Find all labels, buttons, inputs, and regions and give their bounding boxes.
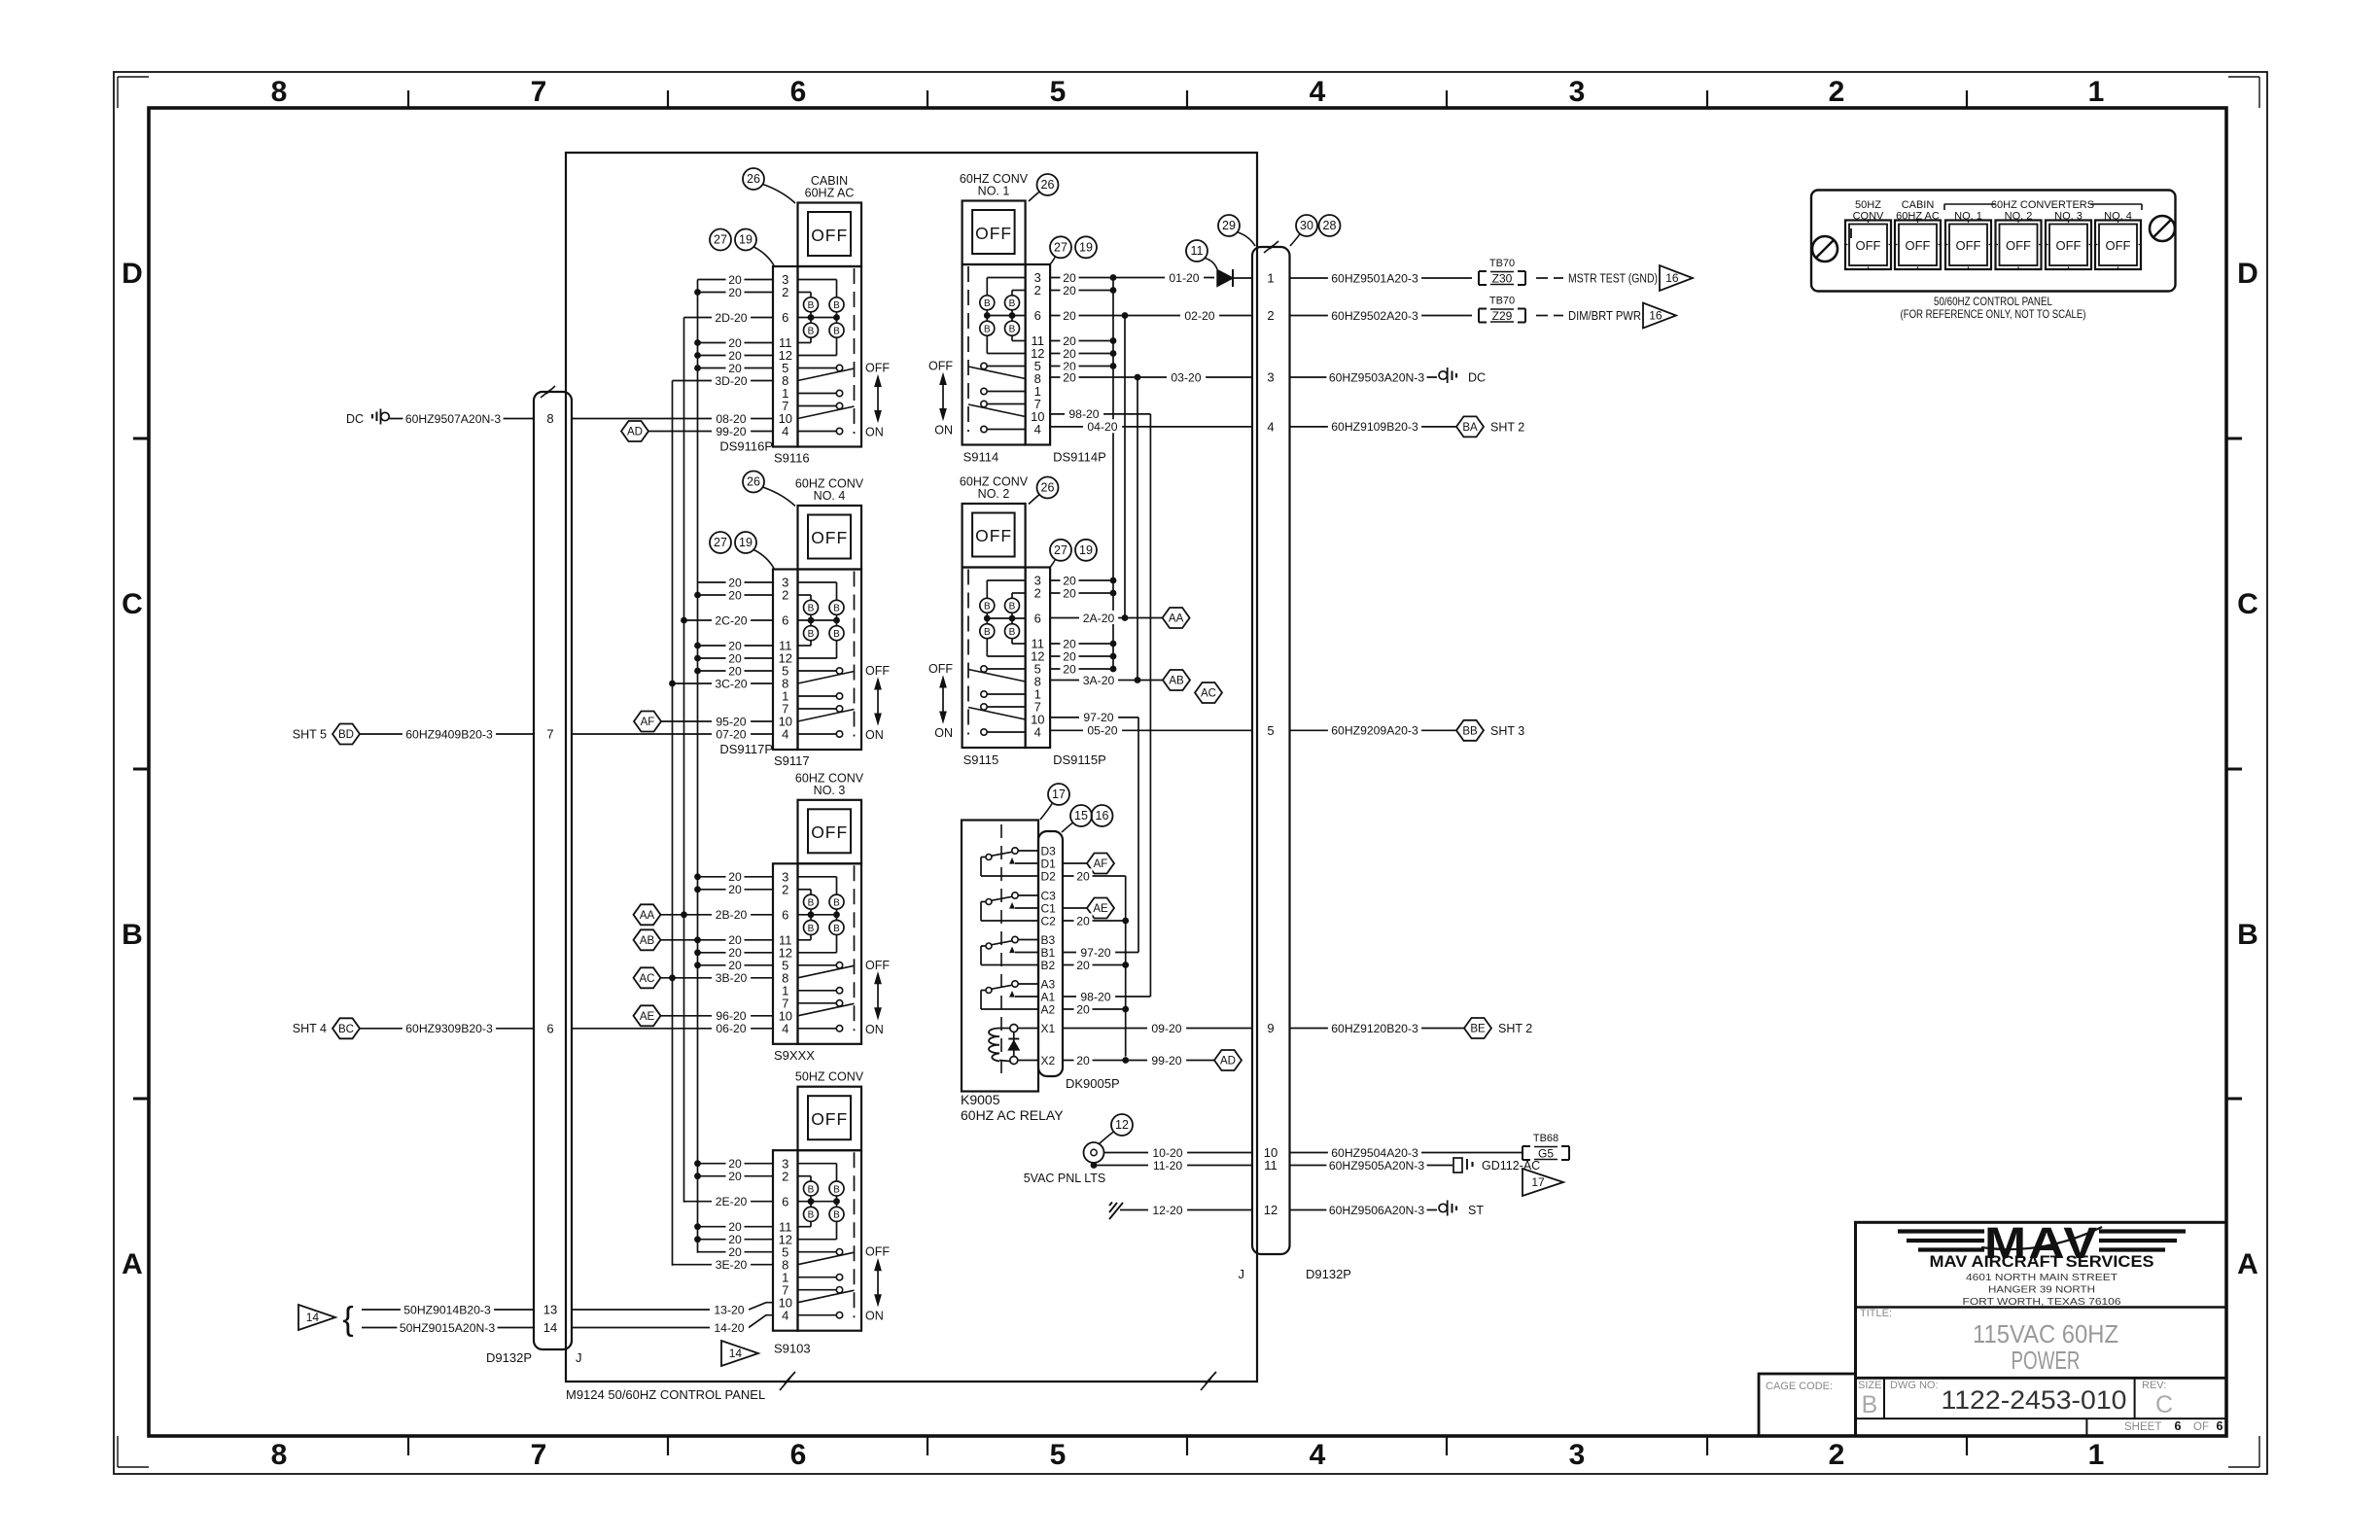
svg-text:19: 19: [739, 536, 752, 549]
switch S9XXX actuator dashed line: [854, 865, 856, 1031]
svg-text:20: 20: [728, 336, 742, 350]
svg-text:1: 1: [2088, 76, 2105, 108]
svg-text:B: B: [833, 300, 840, 311]
svg-text:B: B: [2237, 919, 2258, 951]
svg-text:26: 26: [747, 475, 760, 489]
svg-text:OFF: OFF: [811, 226, 848, 245]
wire S9114 pin5 20: [1050, 366, 1113, 367]
svg-text:4: 4: [1310, 76, 1326, 108]
switch S9XXX body: [798, 863, 862, 1044]
svg-text:AC: AC: [1201, 688, 1216, 700]
panel box bottom break symbols: [780, 1372, 795, 1390]
svg-text:11: 11: [1191, 244, 1204, 258]
svg-text:96-20: 96-20: [716, 1009, 746, 1023]
wire S9117 pin2 20: [698, 594, 774, 596]
svg-text:B: B: [808, 1210, 815, 1221]
svg-text:20: 20: [1063, 271, 1076, 285]
relay coil diode: [1010, 1025, 1018, 1032]
svg-text:OFF: OFF: [975, 526, 1012, 545]
wire 60HZ9503A20N-3 DC: [1290, 376, 1438, 378]
svg-text:FORT WORTH, TEXAS 76106: FORT WORTH, TEXAS 76106: [1963, 1296, 2121, 1308]
svg-text:60HZ9209A20-3: 60HZ9209A20-3: [1331, 724, 1418, 738]
svg-text:OFF: OFF: [928, 360, 953, 373]
svg-text:1: 1: [1267, 271, 1274, 286]
svg-text:B3: B3: [1041, 933, 1056, 947]
wire S9114 pin11 20: [1050, 340, 1113, 342]
wire relay D1 to AF: [1063, 862, 1088, 864]
wire S9117 pin12 20: [698, 657, 774, 659]
switch S9117 actuator dashed line: [854, 572, 856, 737]
svg-text:14: 14: [306, 1311, 320, 1324]
svg-text:SHT 2: SHT 2: [1490, 420, 1524, 434]
switch S9114 OFF indicator box: [962, 201, 1026, 265]
balloon 27: [1050, 540, 1071, 561]
svg-text:3B-20: 3B-20: [716, 971, 748, 985]
balloon 19: [1075, 540, 1097, 561]
svg-text:ON: ON: [865, 728, 884, 742]
svg-text:DC: DC: [1468, 371, 1486, 385]
svg-text:C1: C1: [1041, 901, 1057, 915]
svg-text:28: 28: [1323, 219, 1337, 232]
svg-text:ON: ON: [934, 424, 953, 437]
relay contact D: [1012, 848, 1018, 854]
svg-text:95-20: 95-20: [716, 715, 746, 728]
svg-text:D2: D2: [1041, 869, 1057, 883]
svg-text:02-20: 02-20: [1184, 309, 1214, 323]
svg-text:B1: B1: [1041, 946, 1056, 960]
svg-text:19: 19: [1079, 241, 1093, 255]
svg-text:20: 20: [1076, 1002, 1090, 1016]
flag 16: [1660, 265, 1693, 291]
switch S9115 lamp circles: [1005, 598, 1020, 612]
svg-text:REV:: REV:: [2142, 1380, 2166, 1391]
svg-text:OFF: OFF: [865, 362, 890, 375]
switch S9116 OFF/ON arrow: [877, 383, 879, 415]
svg-text:NO. 3: NO. 3: [814, 784, 846, 797]
svg-text:20: 20: [1063, 370, 1076, 384]
wire bus 02/2A-20 (x=1157): [1124, 316, 1126, 618]
svg-text:3: 3: [1267, 370, 1274, 385]
svg-text:20: 20: [1076, 1054, 1090, 1067]
svg-text:OFF: OFF: [1906, 238, 1931, 253]
wire S9115 pin3 20: [1050, 579, 1113, 581]
svg-text:20: 20: [728, 1220, 742, 1234]
svg-text:4: 4: [782, 727, 788, 742]
wire 07-20 to S9117 pin4: [572, 733, 773, 735]
svg-text:DS9114P: DS9114P: [1053, 450, 1106, 465]
svg-text:AA: AA: [640, 910, 655, 922]
svg-text:5: 5: [1050, 76, 1067, 108]
svg-text:B: B: [984, 298, 991, 309]
svg-text:B: B: [1009, 602, 1016, 612]
svg-text:115VAC 60HZ: 115VAC 60HZ: [1973, 1319, 2118, 1348]
switch S9103 OFF indicator box: [798, 1087, 862, 1151]
svg-text:B: B: [984, 325, 991, 335]
svg-text:SIZE: SIZE: [1858, 1380, 1881, 1391]
svg-text:20: 20: [1063, 347, 1076, 361]
svg-text:60HZ9507A20N-3: 60HZ9507A20N-3: [405, 412, 501, 426]
wire S9115 pin5 20: [1050, 668, 1113, 670]
wire 98-20 S9114 pin10: [1050, 413, 1150, 415]
wire relay B1 97-20: [1063, 952, 1138, 954]
svg-text:12: 12: [1115, 1118, 1129, 1132]
flag 16: [1643, 303, 1676, 329]
svg-text:27: 27: [1054, 543, 1067, 557]
svg-text:5: 5: [1050, 1439, 1067, 1471]
svg-text:20: 20: [728, 1233, 742, 1246]
wire 60HZ9505A20N-3 GD112-AC: [1290, 1165, 1453, 1167]
svg-text:MSTR TEST (GND): MSTR TEST (GND): [1568, 272, 1658, 286]
switch S9117 contacts: [798, 670, 837, 672]
svg-text:AF: AF: [641, 717, 655, 728]
wire 04-20 S9114 pin4 to D9132P-4: [1050, 426, 1252, 428]
svg-text:A1: A1: [1041, 990, 1056, 1003]
svg-text:B2: B2: [1041, 959, 1056, 972]
svg-text:08-20: 08-20: [716, 412, 746, 426]
svg-text:26: 26: [1041, 481, 1055, 495]
svg-text:S9114: S9114: [963, 450, 999, 465]
switch S9103 actuator dashed line: [854, 1152, 856, 1317]
svg-text:AA: AA: [1169, 613, 1184, 625]
wire S9103 pin11 20: [698, 1226, 774, 1228]
svg-text:HANGER 39 NORTH: HANGER 39 NORTH: [1988, 1284, 2095, 1296]
svg-text:ON: ON: [934, 726, 953, 740]
svg-text:OFF: OFF: [2006, 238, 2031, 253]
svg-text:20: 20: [1076, 914, 1090, 927]
wire S9114 pin6 20 / 02-20 to D9132P-2: [1050, 315, 1252, 317]
switch S9116 lamp circles: [804, 297, 819, 312]
svg-text:60HZ9109B20-3: 60HZ9109B20-3: [1331, 420, 1418, 434]
wire 60HZ9109B20-3 BA SHT 2: [1290, 426, 1457, 428]
switch S9XXX OFF indicator box: [798, 800, 862, 864]
svg-text:OFF: OFF: [811, 1109, 848, 1129]
wire S9103 pin12 20: [698, 1239, 774, 1241]
svg-text:{: {: [342, 1301, 353, 1338]
wire 60HZ9506A20N-3 ST: [1290, 1209, 1438, 1211]
svg-text:S9116: S9116: [774, 451, 810, 466]
svg-text:20: 20: [1063, 649, 1076, 663]
svg-text:B: B: [833, 629, 840, 640]
switch S9116 actuator dashed line: [854, 268, 856, 434]
svg-text:20: 20: [1063, 586, 1076, 600]
panel box right edge through connector: [1256, 247, 1258, 1254]
node AF: [634, 712, 661, 732]
svg-text:3: 3: [1569, 1439, 1586, 1471]
svg-text:12-20: 12-20: [1152, 1204, 1182, 1217]
svg-text:16: 16: [1649, 309, 1662, 323]
svg-text:17: 17: [1531, 1175, 1545, 1189]
svg-text:6: 6: [1034, 612, 1041, 626]
switch S9114 actuator dashed line: [967, 266, 969, 432]
svg-text:10-20: 10-20: [1152, 1146, 1182, 1160]
svg-text:97-20: 97-20: [1080, 946, 1110, 960]
wire 60HZ9120B20-3 BE SHT 2: [1290, 1028, 1465, 1030]
svg-text:OFF: OFF: [865, 959, 890, 972]
svg-text:2: 2: [1829, 1439, 1845, 1471]
svg-text:2E-20: 2E-20: [716, 1195, 748, 1208]
switch S9116 body: [798, 266, 862, 447]
wire S9117 pin3 20: [698, 581, 774, 583]
svg-text:SHEET: SHEET: [2124, 1421, 2161, 1433]
flag 14: [298, 1305, 335, 1330]
svg-text:TB70: TB70: [1489, 296, 1515, 307]
svg-text:60HZ AC: 60HZ AC: [805, 187, 855, 200]
balloon 27: [1050, 236, 1071, 258]
svg-text:TB70: TB70: [1489, 258, 1515, 269]
svg-text:AD: AD: [1220, 1056, 1236, 1067]
svg-text:3D-20: 3D-20: [715, 374, 747, 388]
svg-text:DS9116P: DS9116P: [719, 439, 773, 454]
switch S9114 pin column: [1026, 264, 1051, 445]
balloon 15: [1070, 805, 1092, 826]
svg-text:60HZ9502A20-3: 60HZ9502A20-3: [1331, 309, 1418, 323]
svg-text:(FOR REFERENCE ONLY, NOT TO SC: (FOR REFERENCE ONLY, NOT TO SCALE): [1901, 307, 2086, 321]
svg-text:B: B: [833, 327, 840, 337]
svg-text:4: 4: [1034, 422, 1041, 437]
svg-text:Z29: Z29: [1492, 309, 1513, 323]
node AC: [634, 967, 661, 988]
svg-text:B: B: [833, 897, 840, 908]
svg-text:SHT 3: SHT 3: [1490, 724, 1524, 738]
switch S9117 lamp circles: [804, 600, 819, 614]
relay contact A: [1012, 981, 1018, 987]
svg-text:26: 26: [1041, 178, 1055, 192]
balloon 19: [735, 532, 756, 553]
svg-text:15: 15: [1074, 809, 1088, 822]
svg-text:B: B: [808, 300, 815, 311]
svg-text:6: 6: [1034, 308, 1041, 323]
svg-text:11: 11: [1264, 1158, 1277, 1172]
svg-text:6: 6: [2175, 1419, 2182, 1433]
wire 3E-20 S9103 pin8: [673, 1264, 774, 1266]
svg-text:20: 20: [728, 349, 742, 363]
svg-text:7: 7: [531, 76, 547, 108]
svg-text:B: B: [808, 629, 815, 640]
node AE: [1087, 898, 1114, 919]
svg-text:2: 2: [1034, 586, 1041, 601]
svg-text:TB68: TB68: [1533, 1133, 1558, 1144]
svg-text:50/60HZ CONTROL PANEL: 50/60HZ CONTROL PANEL: [1934, 295, 2052, 308]
switch S9103 OFF/ON arrow: [877, 1267, 879, 1299]
wire 11-20 to D9132P-11: [1093, 1163, 1095, 1166]
svg-text:BC: BC: [338, 1024, 354, 1035]
wire S9XXX pin2 20: [698, 889, 774, 891]
balloon 16: [1092, 805, 1113, 826]
svg-text:20: 20: [1063, 574, 1076, 587]
svg-text:3E-20: 3E-20: [716, 1258, 748, 1272]
svg-text:NO. 2: NO. 2: [978, 487, 1010, 501]
wire S9114 pin12 20: [1050, 353, 1113, 355]
balloon 26: [1037, 477, 1059, 499]
svg-text:POWER: POWER: [2012, 1346, 2081, 1375]
svg-text:A: A: [122, 1248, 143, 1280]
switch S9117 internal wiring: [798, 581, 837, 583]
svg-text:50HZ9014B20-3: 50HZ9014B20-3: [403, 1303, 491, 1316]
svg-text:B: B: [833, 1184, 840, 1195]
svg-text:B: B: [808, 924, 815, 934]
svg-text:6: 6: [782, 1194, 788, 1208]
switch S9115 OFF/ON arrow: [942, 683, 944, 716]
svg-text:2B-20: 2B-20: [716, 908, 748, 922]
wire relay X2 20 / 99-20 to AD: [1063, 1060, 1214, 1062]
svg-text:OFF: OFF: [2056, 238, 2082, 253]
switch S9103 pin column: [773, 1150, 798, 1331]
svg-text:8: 8: [546, 411, 553, 426]
switch S9103 contacts: [798, 1251, 837, 1253]
wire 2A-20 S9115 pin6 to AA: [1050, 617, 1162, 619]
relay contact C: [1012, 892, 1018, 898]
svg-text:4: 4: [782, 1308, 788, 1322]
svg-text:D1: D1: [1041, 857, 1057, 870]
node BC: [332, 1018, 360, 1038]
svg-text:20: 20: [1076, 959, 1090, 972]
wire S9115 pin11 20: [1050, 643, 1113, 645]
wire S9114 pin3 20 / 01-20 to D9132P-1: [1050, 277, 1214, 279]
svg-text:27: 27: [714, 233, 727, 247]
zone ticks bottom: [407, 1436, 409, 1455]
wire 08-20 to S9116 pin10: [572, 418, 773, 420]
MAV logo: [1898, 1229, 1984, 1233]
node AA: [634, 904, 661, 925]
svg-text:19: 19: [1079, 543, 1093, 557]
svg-text:NO. 4: NO. 4: [814, 489, 846, 503]
svg-text:20: 20: [1063, 309, 1076, 323]
svg-text:B: B: [984, 602, 991, 612]
panel OFF buttons: [1845, 221, 1891, 270]
wire 60HZ9209A20-3 BB SHT 3: [1290, 729, 1457, 731]
svg-text:6: 6: [782, 907, 788, 922]
svg-text:1122-2453-010: 1122-2453-010: [1942, 1385, 2127, 1415]
svg-text:09-20: 09-20: [1151, 1022, 1181, 1035]
panel screw left: [1812, 236, 1837, 262]
switch S9103 body: [798, 1150, 862, 1331]
svg-text:B: B: [808, 327, 815, 337]
svg-text:60HZ9409B20-3: 60HZ9409B20-3: [405, 727, 493, 741]
svg-text:14-20: 14-20: [714, 1321, 744, 1335]
wire relay A1 98-20: [1063, 996, 1150, 997]
switch S9115 OFF indicator box: [962, 504, 1026, 568]
svg-text:60HZ9504A20-3: 60HZ9504A20-3: [1331, 1146, 1418, 1160]
wire 12-20 to D9132P-12: [1120, 1209, 1252, 1211]
svg-text:30: 30: [1300, 219, 1313, 232]
svg-text:1: 1: [2088, 1439, 2105, 1471]
wire 3D-20 S9116 pin8: [673, 380, 774, 382]
svg-text:OF: OF: [2193, 1421, 2209, 1433]
balloon 27: [710, 229, 731, 251]
svg-text:6: 6: [2217, 1419, 2223, 1433]
svg-text:2: 2: [782, 1169, 788, 1183]
svg-text:DS9115P: DS9115P: [1053, 752, 1106, 767]
svg-text:CAGE CODE:: CAGE CODE:: [1766, 1381, 1833, 1392]
node AC: [1195, 682, 1222, 703]
relay K9005 box: [962, 821, 1038, 1092]
wire bus 03/3A-20 (x=1170): [1137, 377, 1138, 681]
wire bus 20 left (x=717.5): [697, 280, 699, 1253]
svg-text:27: 27: [1054, 241, 1067, 255]
node AD: [621, 421, 648, 441]
relay X1 X2 wires to bar: [1018, 1028, 1038, 1030]
svg-text:AC: AC: [640, 973, 655, 985]
svg-text:OFF: OFF: [975, 224, 1012, 243]
svg-text:K9005: K9005: [961, 1092, 1000, 1107]
svg-text:50HZ9015A20N-3: 50HZ9015A20N-3: [400, 1321, 495, 1335]
node BE: [1464, 1018, 1491, 1038]
switch S9XXX OFF/ON arrow: [877, 980, 879, 1012]
wire S9115 pin12 20: [1050, 655, 1113, 657]
svg-text:SHT 4: SHT 4: [293, 1022, 327, 1035]
svg-text:C3: C3: [1041, 889, 1057, 902]
svg-text:OFF: OFF: [1856, 238, 1881, 253]
svg-text:50HZ CONV: 50HZ CONV: [795, 1070, 864, 1084]
switch S9XXX internal wiring: [798, 876, 837, 878]
switch S9103 internal wiring: [798, 1163, 837, 1165]
svg-text:TITLE:: TITLE:: [1860, 1308, 1892, 1319]
node AD: [1214, 1050, 1242, 1070]
relay K9005 actuator dashed line: [1000, 824, 1002, 1075]
svg-text:MAV AIRCRAFT SERVICES: MAV AIRCRAFT SERVICES: [1930, 1253, 2154, 1271]
svg-text:8: 8: [271, 76, 288, 108]
svg-text:Z30: Z30: [1492, 271, 1513, 285]
svg-text:D9132P: D9132P: [1306, 1267, 1351, 1281]
svg-text:3: 3: [1569, 76, 1586, 108]
control panel box M9124: [566, 153, 1257, 392]
svg-text:4: 4: [782, 424, 788, 438]
svg-text:OFF: OFF: [811, 528, 848, 547]
svg-text:4: 4: [1267, 419, 1274, 434]
svg-text:BB: BB: [1462, 725, 1478, 737]
svg-text:OFF: OFF: [1956, 238, 1981, 253]
svg-text:AD: AD: [627, 427, 643, 438]
balloon 30: [1296, 215, 1317, 236]
svg-text:AE: AE: [1093, 903, 1108, 915]
svg-text:AF: AF: [1094, 858, 1108, 870]
svg-text:B: B: [1009, 325, 1016, 335]
svg-text:C: C: [122, 588, 143, 620]
wire bus relay-20 (x=1157.7): [1125, 876, 1127, 1057]
svg-text:60HZ AC RELAY: 60HZ AC RELAY: [961, 1107, 1064, 1123]
switch S9114 body: [962, 264, 1026, 445]
svg-text:20: 20: [728, 946, 742, 960]
node AB: [634, 929, 661, 950]
svg-text:20: 20: [728, 664, 742, 678]
svg-text:4: 4: [782, 1021, 788, 1035]
svg-text:4601 NORTH MAIN STREET: 4601 NORTH MAIN STREET: [1966, 1272, 2118, 1283]
switch S9115 body: [962, 568, 1026, 749]
wire 3C-20 S9117 pin8: [673, 682, 774, 684]
svg-text:B: B: [833, 1210, 840, 1221]
svg-text:ON: ON: [865, 1023, 884, 1036]
svg-text:60HZ9501A20-3: 60HZ9501A20-3: [1331, 271, 1418, 285]
svg-text:20: 20: [728, 933, 742, 947]
switch S9117 body: [798, 570, 862, 751]
node AE: [634, 1005, 661, 1026]
svg-text:BD: BD: [338, 729, 354, 741]
svg-text:05-20: 05-20: [1087, 724, 1117, 738]
wire 2D-20 S9116 pin6: [684, 317, 774, 319]
svg-text:19: 19: [739, 233, 752, 247]
svg-text:60HZ9309B20-3: 60HZ9309B20-3: [405, 1022, 493, 1035]
svg-text:13-20: 13-20: [714, 1303, 744, 1316]
wire S9114 pin8 20 / 03-20 to D9132P-3: [1050, 376, 1252, 378]
svg-text:20: 20: [1076, 869, 1090, 883]
zone ticks right: [2226, 437, 2242, 440]
wire 3A-20 S9115 pin8 to AB AC: [1050, 680, 1163, 682]
wire S9116 pin3 20: [698, 279, 774, 281]
balloon 26: [1037, 174, 1059, 195]
title block cage code cell: [1759, 1374, 1856, 1436]
svg-text:S9115: S9115: [963, 752, 999, 767]
balloon 17: [1048, 784, 1069, 805]
